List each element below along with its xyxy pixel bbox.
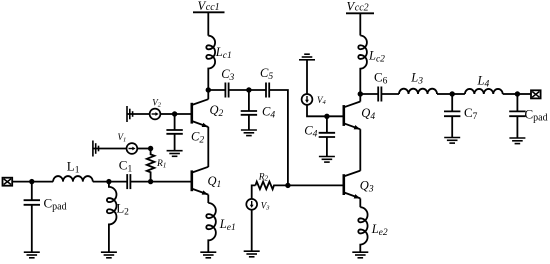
ground (C4 Q4 base) [319, 157, 335, 163]
wire Vcc2 to Lc2 [359, 13, 361, 35]
source V1 [126, 143, 137, 154]
transistor Q2 [191, 103, 194, 124]
ground (V2, rotated) [127, 106, 133, 122]
wire Q3 emitter to Le2 [359, 198, 361, 207]
wire C7 to ground [451, 116, 453, 137]
wire C2 to ground [174, 134, 176, 151]
wire V1 ground to source V1 [93, 148, 127, 150]
capacitor C1 [126, 174, 128, 189]
wire C4b to ground [326, 137, 328, 157]
node B junction [148, 179, 153, 184]
ground (V4, inverted) [299, 54, 315, 60]
ground (C4 interstage) [241, 130, 257, 136]
node E junction [285, 183, 290, 188]
wire node N3 to C6 [360, 93, 378, 95]
wire Q4 emitter to Q3 collector [359, 129, 361, 171]
ground (V3) [244, 251, 260, 257]
wire C6 to L3 [381, 93, 399, 95]
wire node N1 to C3 [208, 89, 225, 91]
wire node N2 down to C4 [248, 90, 250, 111]
resistor R1 [147, 149, 155, 182]
svg-text:cc2: cc2 [355, 3, 369, 14]
wire node E to Q3 base [288, 184, 344, 186]
transistor Q1 [191, 170, 194, 191]
ground (V1, rotated) [93, 141, 99, 157]
wire node IN to L1 [32, 181, 53, 183]
wire C4 to ground [248, 115, 250, 130]
wire node D to Q2 base [175, 113, 192, 115]
inductor L4 [465, 89, 503, 94]
transistor Q4 [342, 105, 345, 126]
capacitor C7 [444, 110, 460, 112]
ground (input C_pad) [24, 252, 40, 258]
capacitor C3 [224, 83, 226, 98]
port P1 (RF input) [3, 178, 13, 186]
node A junction [106, 179, 111, 184]
ground (C2) [167, 151, 183, 157]
wire input port to node IN [12, 181, 32, 183]
wire output C_pad to ground [516, 116, 518, 138]
inductor Lc2 [358, 36, 367, 95]
node F junction [324, 114, 329, 119]
wire source V4 to node F [307, 105, 327, 117]
node H junction [515, 91, 520, 96]
power rail Vcc2 bar [346, 12, 374, 14]
capacitor C_pad (input) [24, 199, 40, 201]
node IN junction [29, 179, 34, 184]
svg-text:R2: R2 [258, 172, 269, 182]
source V2 [150, 109, 161, 120]
wire node A to C1 [109, 181, 127, 183]
node D junction [172, 111, 177, 116]
inductor L1 [53, 176, 93, 182]
wire node F to Q4 base [327, 115, 344, 117]
wire L3 to node G [437, 93, 452, 95]
wire L1 to node A [93, 181, 109, 183]
ground (Le2) [352, 252, 368, 258]
inductor Le2 [358, 207, 367, 252]
wire node N2 to C5 [249, 89, 266, 91]
capacitor C6 [377, 87, 379, 102]
inductor Lc1 [206, 36, 215, 90]
wire node B to Q1 base [151, 181, 192, 183]
node N2 junction [246, 87, 251, 92]
wire node F down to C4b [326, 116, 328, 133]
power rail Vcc1 bar [193, 11, 225, 13]
wire C5 to corner and down to node E [269, 90, 288, 185]
wire C1 to node B [130, 181, 150, 183]
svg-text:R1: R1 [156, 159, 166, 169]
capacitor C4 (Q4 base bypass) [319, 132, 335, 134]
wire Q4 collector to node N3 [359, 94, 361, 102]
wire V2 ground to source V2 [127, 113, 150, 115]
transistor Q3 [342, 174, 345, 195]
wire node H to output port [517, 93, 531, 95]
wire C3 to node N2 [229, 89, 249, 91]
wire corner to R2 [252, 185, 256, 204]
wire source V1 to node C [137, 148, 150, 150]
ground (C7) [444, 138, 460, 144]
wire C_pad to ground [31, 205, 33, 252]
ground (L2) [101, 252, 117, 258]
capacitor C5 [265, 83, 267, 98]
node N3 junction [358, 91, 363, 96]
wire node G down to C7 [451, 94, 453, 111]
node G junction [450, 91, 455, 96]
wire Vcc1 to Lc1 [207, 12, 209, 35]
wire node D down to C2 [174, 114, 176, 130]
capacitor C_pad (output) [509, 110, 525, 112]
wire Q1 emitter to Le1 [207, 195, 209, 203]
wire source V2 to node D [160, 113, 174, 115]
wire Q2 collector to node N1 [207, 90, 209, 99]
wire V4 ground to source V4 [306, 60, 308, 94]
inductor L3 [399, 89, 437, 94]
source V3 [246, 199, 257, 210]
wire node G to L4 [452, 93, 465, 95]
ground (Le1) [200, 252, 216, 258]
node N1 junction [206, 87, 211, 92]
wire source V3 to ground [251, 210, 253, 252]
inductor Le1 [206, 203, 216, 252]
wire node H down to output C_pad [516, 94, 518, 111]
wire node IN down to C_pad [31, 182, 33, 201]
capacitor C2 [166, 129, 182, 131]
port P2 (RF output) [531, 90, 541, 98]
wire L4 to node H [503, 93, 518, 95]
source V4 [302, 94, 313, 105]
inductor L2 [107, 182, 117, 253]
resistor R2 [255, 182, 288, 190]
wire Q2 emitter to Q1 collector [207, 127, 209, 167]
node C junction [148, 146, 153, 151]
ground (output C_pad) [509, 138, 525, 144]
capacitor C4 (interstage shunt) [241, 110, 257, 112]
